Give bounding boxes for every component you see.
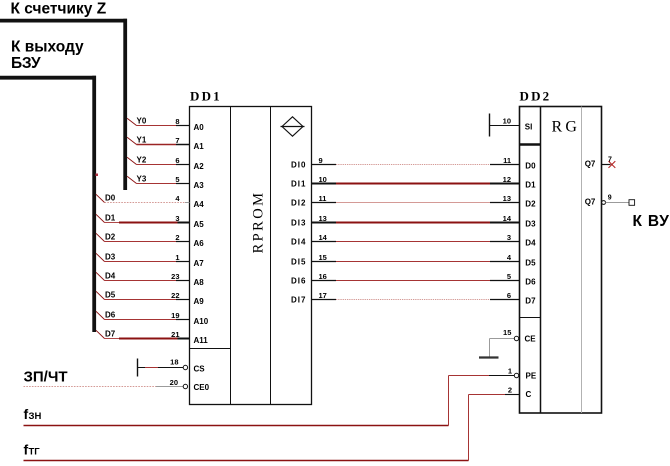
- svg-text:10: 10: [319, 175, 327, 184]
- svg-text:22: 22: [171, 291, 179, 300]
- svg-text:D2: D2: [105, 232, 116, 241]
- svg-text:Y3: Y3: [137, 174, 147, 183]
- svg-text:8: 8: [175, 117, 179, 126]
- svg-text:D3: D3: [525, 220, 536, 229]
- svg-text:RG: RG: [552, 119, 581, 136]
- svg-text:D5: D5: [105, 290, 116, 299]
- svg-text:D4: D4: [105, 271, 116, 280]
- svg-text:7: 7: [175, 136, 179, 145]
- svg-text:К счетчику Z: К счетчику Z: [11, 0, 107, 17]
- svg-text:3: 3: [507, 233, 511, 242]
- svg-text:15: 15: [503, 328, 511, 337]
- svg-text:11: 11: [503, 156, 511, 165]
- svg-text:4: 4: [175, 194, 180, 203]
- svg-text:D7: D7: [105, 329, 116, 338]
- svg-text:A9: A9: [194, 297, 205, 306]
- svg-text:D2: D2: [525, 200, 536, 209]
- svg-text:6: 6: [507, 291, 511, 300]
- svg-text:2: 2: [508, 385, 512, 394]
- svg-text:A1: A1: [194, 142, 205, 151]
- svg-text:A2: A2: [194, 162, 205, 171]
- svg-text:D4: D4: [525, 239, 536, 248]
- svg-text:21: 21: [171, 330, 179, 339]
- svg-text:Y1: Y1: [137, 135, 147, 144]
- svg-text:13: 13: [503, 194, 511, 203]
- svg-text:D6: D6: [525, 278, 536, 287]
- svg-text:6: 6: [175, 156, 179, 165]
- svg-text:C: C: [526, 390, 532, 399]
- svg-text:14: 14: [319, 233, 328, 242]
- svg-text:A0: A0: [194, 123, 205, 132]
- svg-text:DD2: DD2: [520, 89, 552, 104]
- svg-text:1: 1: [175, 253, 179, 262]
- svg-text:D7: D7: [525, 297, 536, 306]
- svg-text:D0: D0: [525, 162, 536, 171]
- svg-text:15: 15: [319, 253, 327, 262]
- svg-text:5: 5: [507, 272, 511, 281]
- svg-text:DI0: DI0: [291, 160, 306, 169]
- svg-text:A3: A3: [194, 181, 205, 190]
- svg-text:A7: A7: [194, 259, 205, 268]
- svg-text:17: 17: [319, 291, 327, 300]
- svg-text:A10: A10: [194, 317, 209, 326]
- svg-text:CE: CE: [525, 334, 537, 343]
- svg-text:CS: CS: [194, 365, 206, 374]
- svg-text:ТГ: ТГ: [29, 446, 41, 457]
- svg-text:D3: D3: [105, 252, 116, 261]
- svg-text:DI1: DI1: [291, 179, 306, 188]
- svg-text:A6: A6: [194, 239, 205, 248]
- svg-text:D5: D5: [525, 259, 536, 268]
- svg-text:D1: D1: [105, 213, 116, 222]
- svg-text:ЗП/ЧТ: ЗП/ЧТ: [24, 369, 68, 386]
- svg-text:A4: A4: [194, 200, 205, 209]
- svg-text:Q7: Q7: [585, 197, 596, 206]
- svg-text:DD1: DD1: [190, 88, 222, 103]
- svg-text:11: 11: [319, 194, 327, 203]
- svg-text:A8: A8: [194, 278, 205, 287]
- svg-text:DI3: DI3: [291, 218, 306, 227]
- svg-text:D6: D6: [105, 310, 116, 319]
- svg-text:RPROM: RPROM: [250, 191, 266, 254]
- svg-text:SI: SI: [525, 122, 533, 131]
- svg-text:D1: D1: [525, 181, 536, 190]
- svg-text:ЗН: ЗН: [29, 411, 42, 422]
- svg-text:DI5: DI5: [291, 257, 306, 266]
- svg-text:12: 12: [503, 175, 511, 184]
- svg-text:A5: A5: [194, 220, 205, 229]
- svg-text:16: 16: [319, 272, 327, 281]
- svg-text:DI4: DI4: [291, 237, 306, 246]
- svg-text:20: 20: [170, 378, 178, 387]
- svg-text:19: 19: [171, 311, 179, 320]
- svg-text:9: 9: [608, 194, 612, 201]
- svg-text:7: 7: [608, 156, 612, 163]
- svg-text:Q7: Q7: [585, 159, 596, 168]
- svg-text:A11: A11: [194, 336, 209, 345]
- svg-text:DI7: DI7: [291, 295, 306, 304]
- svg-text:14: 14: [503, 214, 512, 223]
- svg-text:К выходу: К выходу: [11, 38, 84, 55]
- svg-text:PE: PE: [526, 371, 537, 380]
- svg-text:Y2: Y2: [137, 155, 147, 164]
- svg-text:D0: D0: [105, 193, 116, 202]
- svg-text:DI6: DI6: [291, 276, 306, 285]
- svg-text:18: 18: [170, 358, 178, 367]
- svg-text:4: 4: [507, 253, 512, 262]
- svg-text:5: 5: [175, 175, 179, 184]
- svg-text:CE0: CE0: [194, 383, 210, 392]
- svg-text:10: 10: [503, 116, 511, 125]
- svg-text:К ВУ: К ВУ: [633, 213, 670, 230]
- svg-text:3: 3: [175, 214, 179, 223]
- svg-text:Y0: Y0: [137, 116, 147, 125]
- svg-text:2: 2: [175, 233, 179, 242]
- svg-text:БЗУ: БЗУ: [11, 55, 41, 72]
- svg-text:23: 23: [171, 272, 179, 281]
- svg-text:9: 9: [319, 156, 323, 165]
- svg-text:1: 1: [508, 367, 512, 376]
- svg-text:DI2: DI2: [291, 198, 306, 207]
- svg-text:13: 13: [319, 214, 327, 223]
